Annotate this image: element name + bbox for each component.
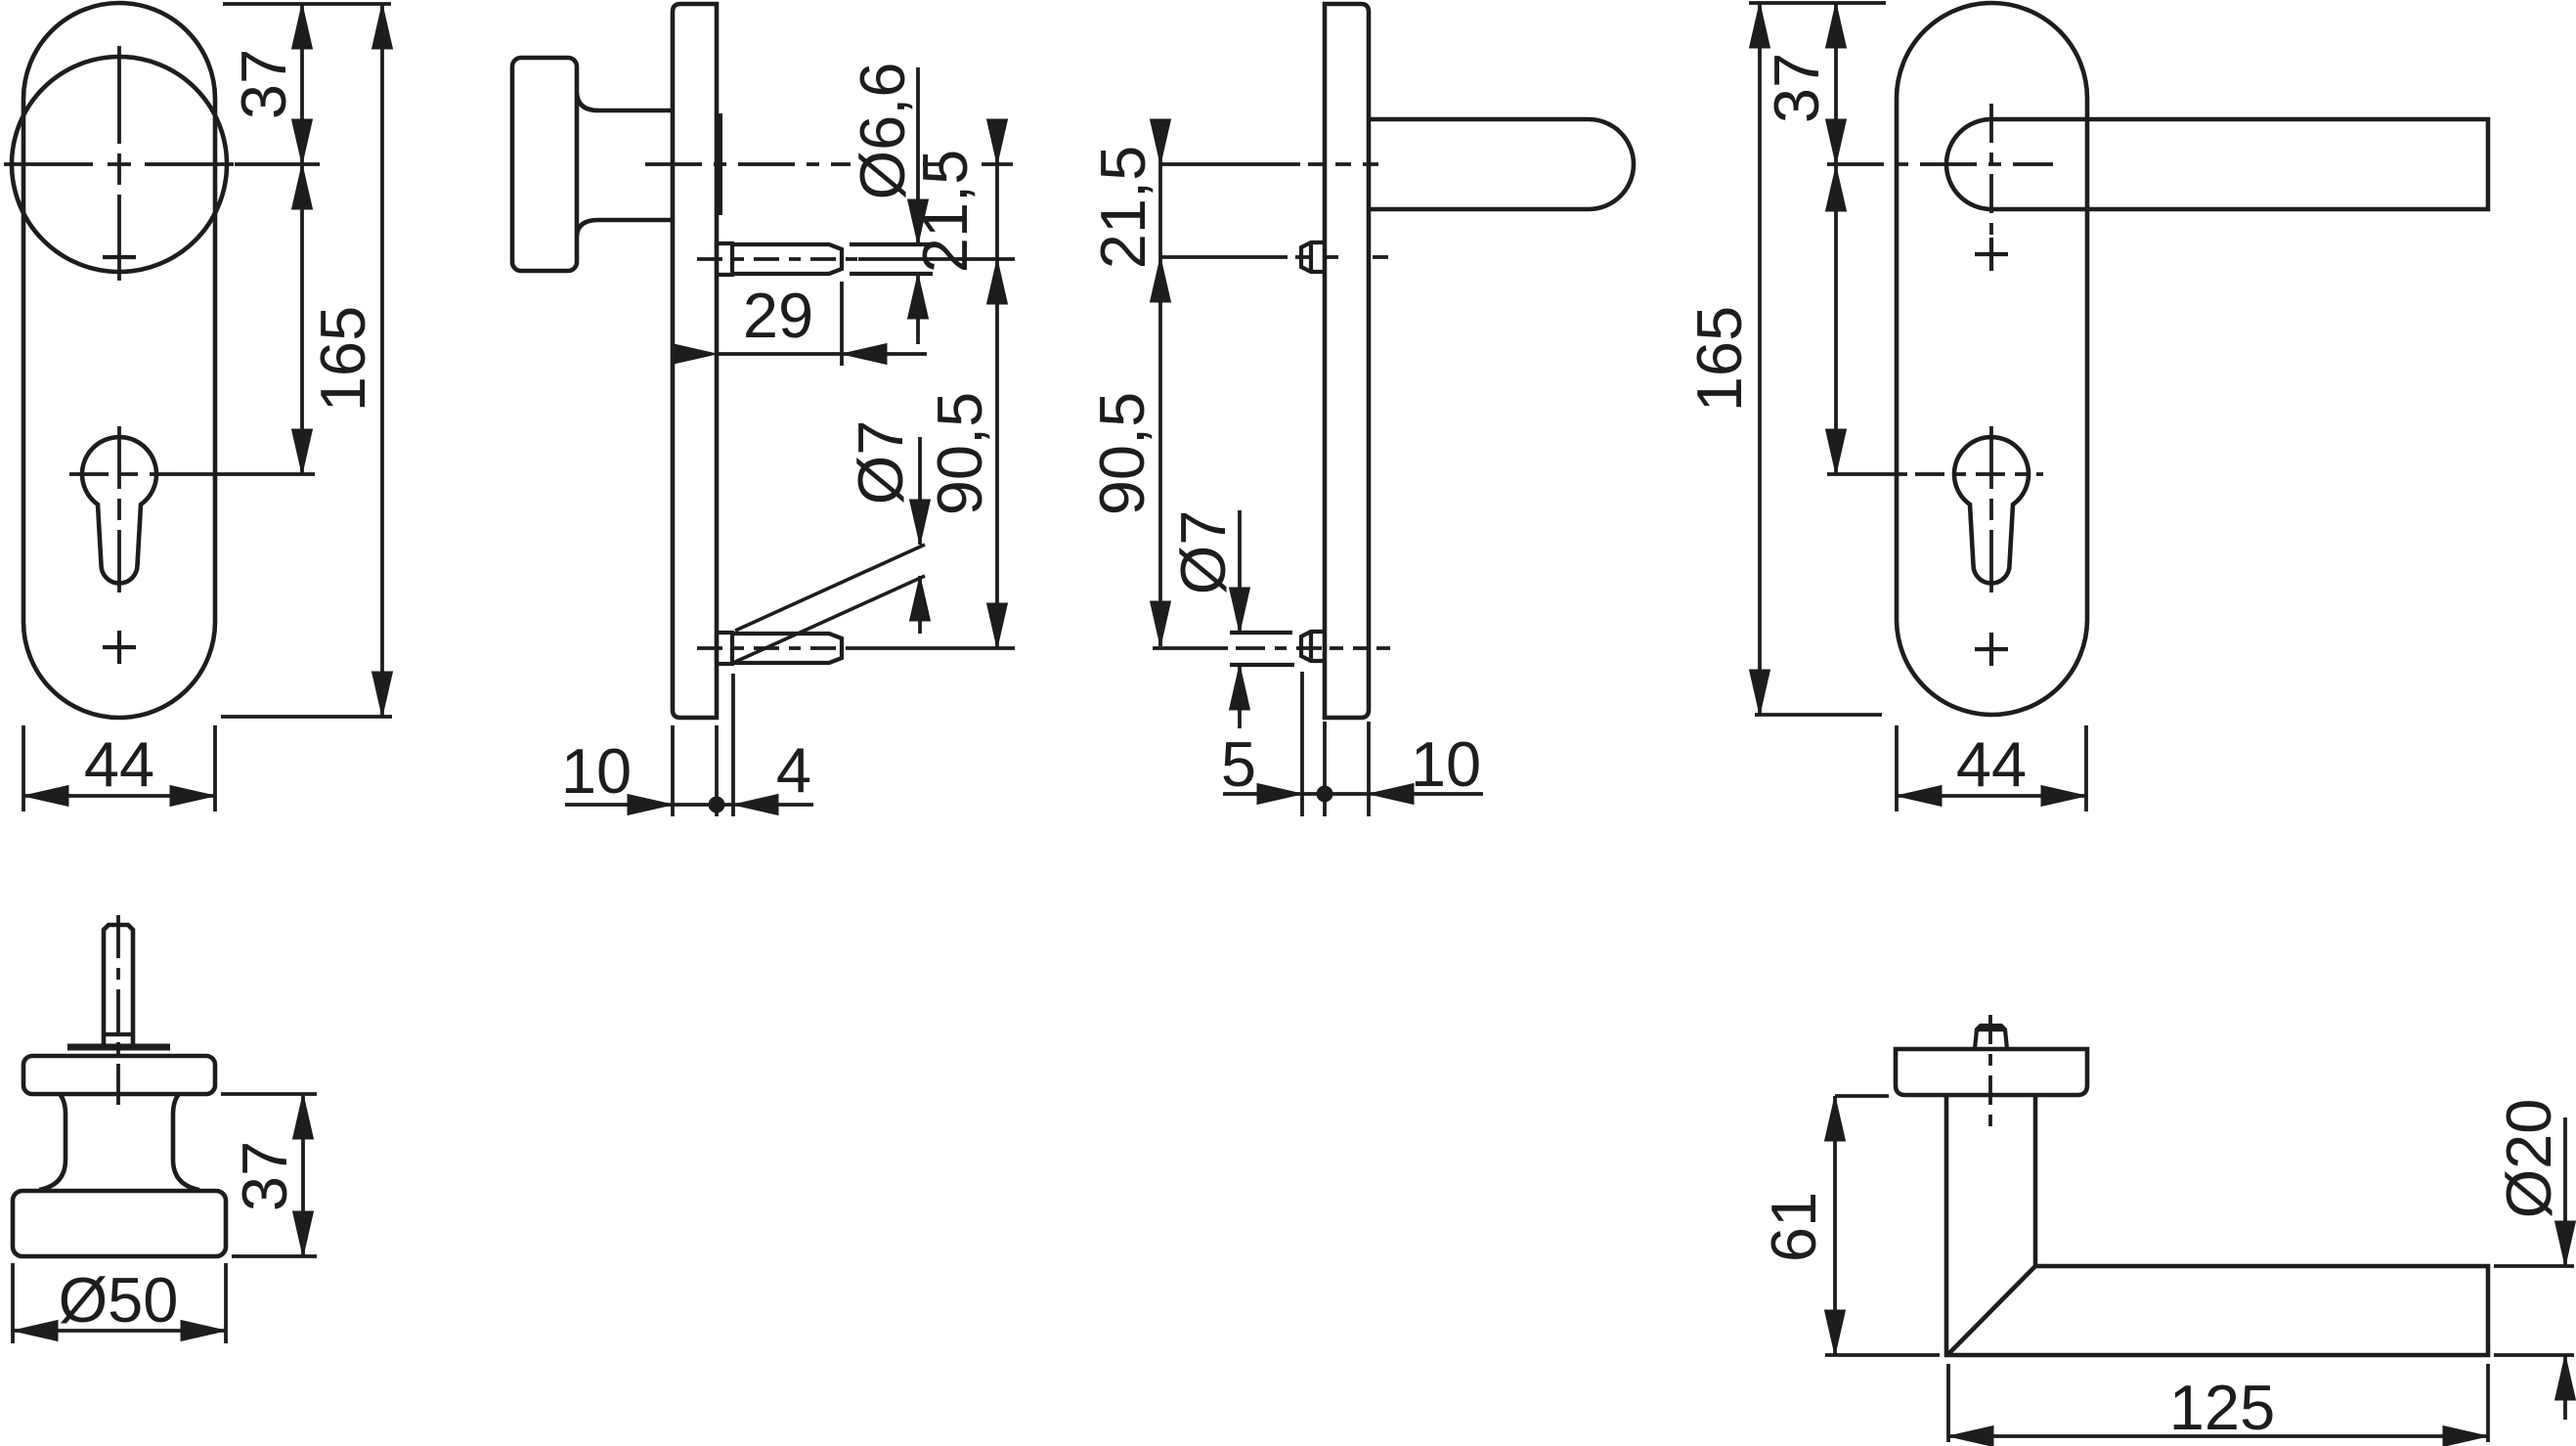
svg-text:Ø6,6: Ø6,6 [847, 63, 918, 200]
extension line plate bottom (lever) [1755, 713, 1882, 717]
extension line plate right edge [715, 725, 719, 816]
upper screw centerline extension [858, 257, 1015, 261]
knob head profile [512, 58, 577, 271]
spring washer [67, 1044, 170, 1051]
knob bearing flange [23, 1056, 215, 1094]
lower screw head inner edge [1309, 632, 1313, 661]
handle axis centerline [645, 162, 941, 166]
extension tick 44 left (lever) [1895, 725, 1899, 811]
knob neck top line [577, 93, 673, 110]
arrowhead 44 right [170, 786, 215, 807]
oval backplate (front view, lever side) [1897, 3, 2087, 715]
screw nib inner line [1977, 1028, 2005, 1031]
arrowhead Ø6,6 bottom [908, 274, 929, 319]
arrowhead 44 left (lever) [1897, 786, 1942, 807]
cylinder vertical centerline (lever) [1989, 426, 1993, 592]
label 125 [2169, 1372, 2275, 1443]
label 61 [1758, 1192, 1829, 1262]
upper screw centerline dashes [1295, 255, 1388, 259]
upper screw centerline [697, 257, 858, 261]
dimension line Ø20 upper [2563, 1117, 2567, 1266]
hole projection diagonal upper [735, 545, 925, 631]
extension line knob bottom (37) [232, 1254, 317, 1258]
arrowhead knob 37 top [293, 1094, 314, 1139]
label 90,5 (lever) [1086, 392, 1157, 516]
label Ø7 (lever side) [1167, 510, 1239, 595]
upper screw centerline ext [1160, 255, 1288, 259]
svg-text:4: 4 [776, 734, 811, 806]
lever miter edge [1947, 1266, 2035, 1355]
lever axis centerline dashes [1308, 162, 1388, 166]
arrowhead Ø50 left [13, 1321, 58, 1341]
dimension line 21,5 / 90,5 (lever) [1158, 119, 1162, 646]
arrowhead centers top [292, 164, 313, 209]
lower fixing screw head [717, 633, 732, 664]
extension line 61 bottom [1825, 1353, 1940, 1357]
svg-text:21,5: 21,5 [1087, 146, 1158, 270]
lower screw centerline (lever) [1153, 646, 1228, 650]
label 165 [307, 306, 378, 412]
arrowhead centers bottom (lever) [1826, 429, 1847, 474]
label 90,5 [924, 392, 995, 516]
svg-text:10: 10 [561, 735, 632, 807]
label 21,5 [909, 150, 981, 274]
knob horizontal centerline [4, 162, 320, 166]
arrowhead 10 right (lever) [1369, 784, 1414, 805]
lever grip side profile [1369, 119, 1634, 209]
arrowhead 4 right [733, 795, 778, 815]
svg-text:37: 37 [1761, 53, 1832, 123]
backplate side profile (lever side) [1325, 4, 1369, 718]
euro profile cylinder hole (lever) [1954, 437, 2029, 583]
label 29 [743, 280, 813, 351]
dimension line Ø6,6 upper [916, 67, 920, 244]
arrowhead 29 right [842, 344, 887, 365]
arrowhead 125 right [2443, 1426, 2488, 1446]
extension line knob top (37) [221, 1092, 317, 1096]
arrowhead 29 left [672, 344, 717, 365]
arrowhead 37 top (lever) [1826, 3, 1847, 48]
svg-text:Ø7: Ø7 [845, 420, 916, 505]
lever rose flange [1896, 1049, 2087, 1095]
dimension line 44 (lever) [1897, 794, 2086, 798]
arrowhead 61 bottom [1825, 1310, 1846, 1355]
upper screw head inner edge [1309, 242, 1313, 272]
label 165 (lever) [1683, 306, 1755, 412]
label Ø6,6 [847, 63, 918, 200]
knob vertical centerline [117, 46, 121, 281]
arrowhead 37 bottom [292, 119, 313, 164]
extension line plate top [223, 2, 391, 6]
lever vertical centerline [1989, 104, 1993, 247]
dimension line Ø7 lower stub (lever) [1238, 665, 1242, 728]
label 10 (knob side) [561, 735, 632, 807]
extension line Ø20 bottom [2494, 1353, 2574, 1357]
upper fixing screw shaft [732, 244, 842, 274]
dimension line 44 [23, 794, 215, 798]
svg-text:Ø7: Ø7 [1167, 510, 1239, 595]
arrowhead knob 37 bottom [293, 1211, 314, 1256]
arrowhead Ø7 top (lever) [1230, 588, 1250, 633]
dimension origin dot (lever) [1317, 786, 1332, 802]
dimension origin dot [709, 797, 724, 812]
knob neck bottom line [577, 220, 673, 236]
extension line plate left (lever) [1323, 722, 1327, 816]
svg-text:Ø20: Ø20 [2493, 1099, 2564, 1219]
svg-text:165: 165 [307, 306, 378, 412]
svg-text:90,5: 90,5 [1086, 392, 1157, 516]
label 44 (lever) [1956, 728, 2027, 800]
label 37 [228, 49, 299, 119]
label 44 [84, 728, 154, 800]
dimension line 21,5 / 90,5 [995, 119, 999, 648]
extension tick 44 left [22, 725, 25, 811]
arrowhead Ø7 top [910, 500, 931, 545]
upper screw position tick [103, 255, 136, 259]
dimension line 61 [1833, 1096, 1837, 1355]
backplate side profile (knob side) [673, 4, 717, 718]
lower screw position cross (lever) [1975, 633, 2008, 666]
arrowhead 90,5 bottom (lever) [1151, 601, 1171, 646]
svg-text:125: 125 [2169, 1372, 2275, 1443]
lower screw centerline [697, 646, 857, 650]
arrowhead Ø7 bottom (lever) [1230, 665, 1250, 710]
extension line plate bottom [221, 715, 392, 719]
extension line 61 top [1835, 1094, 1889, 1098]
extension tick at axis [982, 162, 1013, 166]
arrowhead centers top (lever) [1826, 166, 1847, 211]
dimension line 165 (lever) [1758, 3, 1762, 715]
spindle step line [104, 1032, 133, 1036]
knob neck right profile [173, 1094, 199, 1190]
dimension line 37 / centers (lever) [1834, 3, 1838, 474]
dimension line Ø7 upper [918, 437, 922, 545]
extension line 125 right [2486, 1364, 2490, 1442]
arrowhead 44 left [23, 786, 68, 807]
dimension line 125 [1948, 1434, 2488, 1438]
dimension line 165 [380, 4, 384, 717]
lower screw centerline extension [857, 646, 1015, 650]
spindle centerline [116, 915, 120, 1105]
svg-text:Ø50: Ø50 [59, 1264, 179, 1336]
dimension line 37 / centers [300, 4, 304, 474]
upper screw head (lever side) [1301, 242, 1325, 272]
arrowhead 5 left [1257, 784, 1302, 805]
svg-text:10: 10 [1411, 728, 1481, 800]
label 5 [1221, 728, 1256, 800]
lower screw hole line bottom [1230, 663, 1294, 667]
lower screw hole line top [1230, 631, 1292, 635]
upper screw hole line top [850, 242, 933, 246]
arrowhead 61 top [1825, 1096, 1846, 1141]
svg-text:90,5: 90,5 [924, 392, 995, 516]
spindle hub edge behind plate [715, 113, 722, 215]
arrowhead 37 top [292, 4, 313, 49]
arrowhead 44 right (lever) [2041, 786, 2086, 807]
lower screw centerline dashes (lever) [1236, 646, 1392, 650]
arrowhead Ø6,6 top [908, 199, 929, 244]
label 37 (knob height) [229, 1141, 300, 1211]
arrowhead 10 left [628, 795, 673, 815]
svg-text:44: 44 [1956, 728, 2027, 800]
lever handle profile outline [1946, 1095, 2488, 1355]
dimension line 29 [717, 352, 927, 356]
svg-text:44: 44 [84, 728, 154, 800]
label Ø20 [2493, 1099, 2564, 1219]
lower screw head (lever side) [1301, 632, 1325, 661]
svg-text:21,5: 21,5 [909, 150, 981, 274]
oval backplate (front view, knob side) [23, 3, 215, 718]
arrowhead Ø50 right [181, 1321, 226, 1341]
label 10 (lever side) [1411, 728, 1481, 800]
upper fixing screw head [717, 243, 732, 275]
arrowhead 165 bottom (lever) [1750, 670, 1770, 715]
extension tick 44 right [213, 725, 217, 811]
arrowhead 165 top (lever) [1750, 3, 1770, 48]
svg-text:37: 37 [229, 1141, 300, 1211]
extension line 125 left [1946, 1364, 1950, 1442]
dimension line Ø7 lower stub [918, 576, 922, 634]
svg-text:29: 29 [743, 280, 813, 351]
dimension line 37 (knob height) [301, 1094, 305, 1256]
extension tick Ø50 right [224, 1263, 228, 1343]
arrowhead 37 bottom (lever) [1826, 119, 1847, 164]
arrowhead 165 bottom [372, 672, 393, 717]
extension tick Ø50 left [11, 1263, 15, 1343]
extension line head edge (5) [1300, 672, 1304, 816]
dimension line Ø20 lower stub [2563, 1355, 2567, 1420]
arrowhead 21,5/90,5 middle [987, 259, 1008, 304]
svg-text:5: 5 [1221, 728, 1256, 800]
extension tick 44 right (lever) [2084, 725, 2088, 811]
extension line Ø20 top [2494, 1264, 2574, 1268]
svg-text:37: 37 [228, 49, 299, 119]
knob neck left profile [39, 1094, 65, 1190]
extension line plate left edge [671, 725, 675, 816]
arrowhead 21,5 top (lever) [1151, 119, 1171, 164]
extension line plate right (lever) [1367, 722, 1371, 816]
dimension line Ø6,6 lower stub [916, 274, 920, 344]
dimension line 5 and 10 [1223, 792, 1483, 796]
label Ø7 (knob side) [845, 420, 916, 505]
upper screw position cross (lever) [1975, 238, 2008, 271]
arrowhead 21,5/90,5 middle (lever) [1151, 257, 1171, 302]
hole projection diagonal lower [735, 576, 925, 662]
arrowhead 21,5 top [987, 119, 1008, 164]
svg-text:165: 165 [1683, 306, 1755, 412]
knob circle Ø50 [12, 57, 227, 272]
dimension line Ø7 upper (lever) [1238, 510, 1242, 633]
dimension line Ø50 [13, 1329, 226, 1333]
cylinder hole vertical centerline [117, 426, 121, 592]
dimension line 10 and 4 [565, 803, 813, 807]
arrowhead Ø20 top [2555, 1221, 2576, 1266]
arrowhead Ø7 bottom [910, 576, 931, 621]
lower screw position cross [103, 631, 136, 664]
label 4 [776, 734, 811, 806]
lever axis centerline ext [1160, 162, 1300, 166]
extension line plate top (lever) [1749, 1, 1886, 5]
spindle screw nib [1975, 1026, 2007, 1049]
label 37 (lever) [1761, 53, 1832, 123]
svg-text:61: 61 [1758, 1192, 1829, 1262]
cylinder centerline extension (dim reference) [176, 472, 315, 476]
arrowhead 165 top [372, 4, 393, 49]
extension line 29 right [840, 282, 844, 366]
arrowhead 90,5 bottom [987, 603, 1008, 648]
euro profile cylinder hole [82, 437, 156, 583]
arrowhead centers bottom [292, 429, 313, 474]
arrowhead Ø20 bottom [2555, 1355, 2576, 1400]
lever handle front view [1946, 119, 2488, 209]
lever horizontal centerline [1827, 162, 2053, 166]
knob head (Ø50 cylinder) [13, 1191, 226, 1256]
extension line lug edge [731, 674, 735, 816]
cylinder hole horizontal centerline [69, 472, 176, 476]
lever vertical centerline (profile) [1988, 1015, 1992, 1132]
label Ø50 [59, 1264, 179, 1336]
lower fixing screw shaft [732, 634, 842, 663]
cylinder horizontal centerline (lever) [1827, 472, 2043, 476]
spindle shaft [104, 925, 133, 1047]
label 21,5 (lever) [1087, 146, 1158, 270]
arrowhead 125 left [1948, 1426, 1993, 1446]
upper screw hole line bottom [850, 272, 933, 276]
